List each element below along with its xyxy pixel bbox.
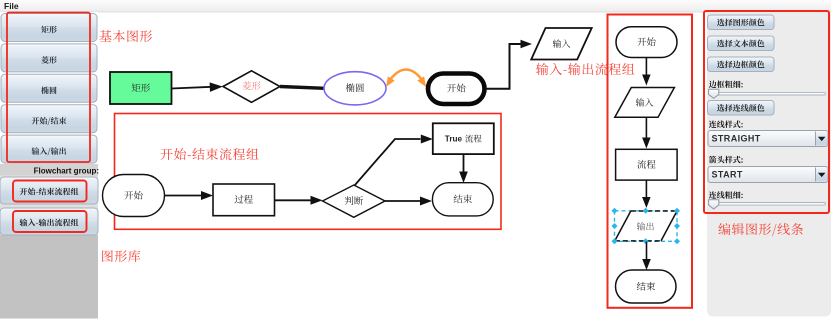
svg-text:START: START [712,170,743,180]
svg-text:True: True [445,135,463,144]
svg-text:File: File [4,1,19,11]
svg-text:Flowchart group:: Flowchart group: [34,166,99,175]
svg-text:STRAIGHT: STRAIGHT [712,134,761,144]
